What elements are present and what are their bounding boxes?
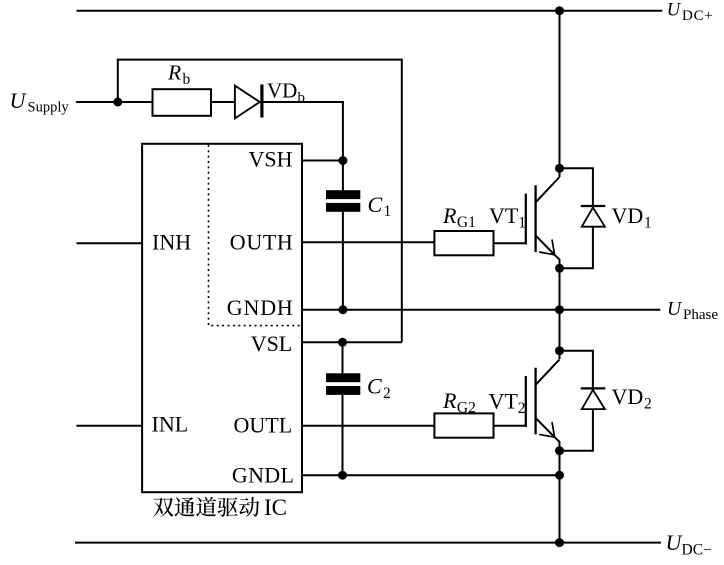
svg-text:Rb: Rb [167, 61, 191, 88]
svg-text:VT1: VT1 [489, 203, 526, 232]
wire: DC+ rail down to VT1 collector [559, 11, 561, 177]
resistor RG2 [434, 413, 493, 437]
svg-text:OUTH: OUTH [230, 229, 293, 254]
node: VT2 collector [555, 346, 564, 355]
wire: supply input to Rb [76, 101, 152, 103]
node: GNDL junction [555, 471, 564, 480]
node: VSH junction [338, 156, 347, 165]
dotted divider inside IC [209, 145, 303, 326]
transistor VT1 (IGBT) [526, 177, 560, 268]
svg-text:UDC−: UDC− [666, 530, 712, 558]
wire: bottom DC- rail [75, 542, 661, 544]
wire: VDb to VSH corner [264, 102, 343, 161]
IC box: dual-channel gate driver [142, 144, 302, 492]
wire: GNDH / phase rail [302, 309, 660, 311]
transistor VT2 (IGBT) [526, 359, 560, 450]
svg-text:IC: IC [264, 495, 287, 520]
wire: Rb to VDb [211, 101, 236, 103]
svg-text:VSL: VSL [251, 331, 293, 356]
svg-text:UPhase: UPhase [667, 299, 718, 323]
capacitor C1 [326, 161, 360, 310]
node: supply junction [113, 98, 122, 107]
resistor RG1 [434, 231, 493, 255]
svg-text:INH: INH [152, 229, 191, 254]
wire: VT1 emitter to phase rail [559, 268, 561, 309]
diode VD2 with connection stubs [560, 351, 606, 451]
wire: VSH pin [302, 160, 343, 162]
wire: top DC+ rail [77, 10, 663, 12]
svg-text:C2: C2 [367, 374, 391, 402]
capacitor C2 [326, 342, 360, 475]
svg-text:C1: C1 [368, 192, 392, 220]
svg-text:RG2: RG2 [442, 388, 476, 416]
svg-text:VD2: VD2 [612, 384, 652, 413]
label: 双通道驱动IC (dual-channel driver IC) [153, 495, 287, 520]
node: VSL junction [338, 338, 347, 347]
node: top rail junction [555, 6, 564, 15]
svg-text:GNDH: GNDH [227, 295, 293, 320]
node: VT1 emitter [555, 264, 564, 273]
wire: VSL pin [302, 341, 402, 343]
node: bottom rail junction [555, 538, 564, 547]
svg-text:VDb: VDb [267, 79, 305, 106]
diode VD1 with connection stubs [560, 168, 606, 268]
wire: INH input [76, 242, 142, 244]
node: phase junction [555, 305, 564, 314]
wire: GNDL pin to emitter junction [302, 474, 560, 476]
node: C2-GNDL junction [338, 471, 347, 480]
svg-text:RG1: RG1 [442, 203, 476, 231]
svg-text:USupply: USupply [10, 88, 70, 116]
wire: RG1 to VT1 gate [494, 242, 527, 244]
wire: phase rail down to VT2 collector [559, 310, 561, 359]
wire: INL input [76, 425, 142, 427]
wire: VT2 emitter to GNDL junction [559, 451, 561, 543]
svg-text:UDC+: UDC+ [667, 0, 714, 24]
svg-text:VT2: VT2 [489, 389, 526, 418]
svg-text:VD1: VD1 [612, 203, 652, 232]
wire: OUTH pin to RG1 [302, 241, 434, 243]
wire: bootstrap bypass from supply node up/across/down to VSL [118, 60, 402, 343]
diode VDb [235, 85, 264, 119]
resistor Rb [153, 89, 212, 116]
svg-text:VSH: VSH [249, 146, 293, 171]
node: C1-GNDH junction [338, 305, 347, 314]
svg-text:GNDL: GNDL [232, 462, 294, 487]
node: VT2 emitter [555, 446, 564, 455]
svg-text:OUTL: OUTL [234, 413, 293, 438]
svg-text:INL: INL [152, 412, 189, 437]
wire: RG2 to VT2 gate [494, 425, 527, 427]
wire: OUTL pin to RG2 [302, 425, 434, 427]
node: VT1 collector [555, 164, 564, 173]
